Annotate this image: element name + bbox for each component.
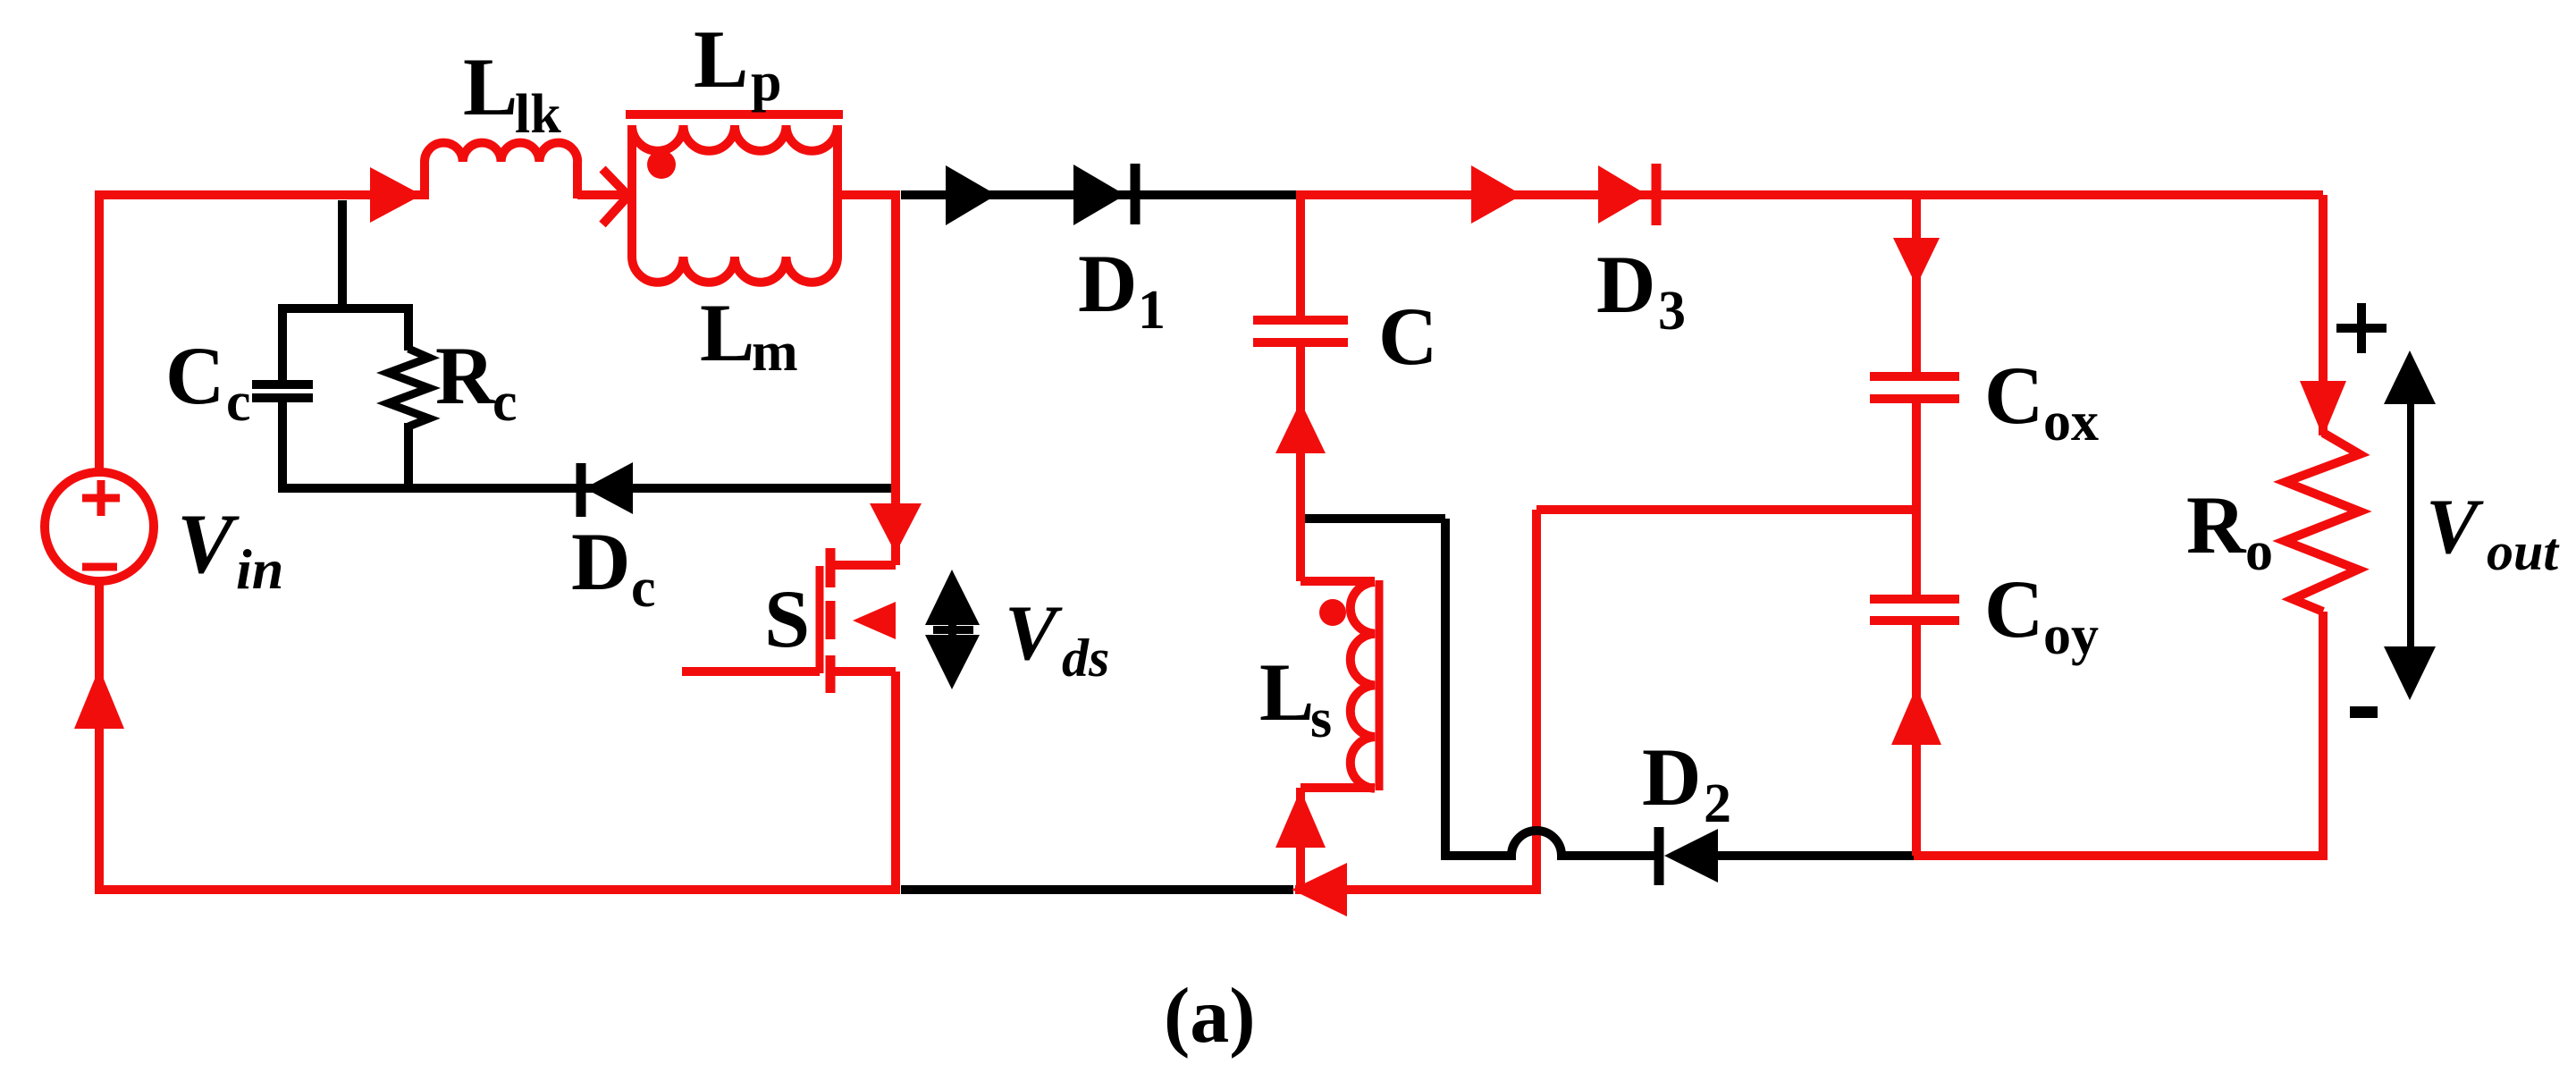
resistor Ro [2285,433,2360,612]
svg-text:ds: ds [1062,629,1109,688]
svg-text:lk: lk [515,84,561,145]
label Vin [177,496,283,601]
wire left rail bottom (red) [95,581,104,890]
current arrow down into Cox [1893,238,1940,286]
wire black with hop to D2 [1441,831,1659,856]
label Ro [2186,479,2273,582]
svg-text:1: 1 [1138,280,1166,341]
svg-text:D: D [1642,731,1701,823]
wire bottom rail right (red) [1914,851,2328,860]
svg-text:L: L [700,287,754,378]
label Rc [435,330,518,433]
svg-text:c: c [226,372,251,433]
wire top rail red (D3 segment) [1296,190,2323,195]
svg-text:ox: ox [2043,392,2099,452]
svg-text:V: V [2426,484,2484,570]
svg-text:2: 2 [1704,773,1731,834]
wire output column top (red) [1912,190,1921,372]
label D2 [1642,731,1731,834]
svg-text:V: V [1005,590,1063,677]
chevron arrow into transformer [602,169,628,224]
current arrow down above Ro [2300,381,2346,437]
wire transformer output (red) [838,190,900,199]
svg-text:C: C [165,330,224,421]
svg-text:L: L [694,13,748,105]
svg-text:o: o [2245,521,2273,582]
current arrow right on top rail [370,167,422,223]
plus sign output [2336,303,2387,353]
wire bottom rail black (MOSFET source to junction) [901,885,1293,894]
node drain junction / capacitor branch black wire from Cc loop [338,200,347,304]
capacitor Cox [1870,376,1959,399]
svg-text:c: c [631,558,656,619]
capacitor Cc [252,384,313,398]
wire riser to output mid node (red) [1536,510,1916,894]
svg-text:m: m [752,322,798,383]
svg-text:3: 3 [1658,281,1686,342]
clamp network box top (black) [282,304,408,493]
transformer left side [627,125,636,257]
svg-text:(a): (a) [1164,973,1256,1060]
polarity dot secondary [1319,599,1346,626]
svg-text:C: C [1984,350,2043,441]
label Coy [1984,563,2099,666]
resistor Rc [404,304,413,350]
diode D2 [1659,827,1718,885]
transformer core bar [626,110,843,119]
wire black D2 to output column [1718,851,1918,860]
minus sign output [2350,706,2378,718]
wire below Coy [1912,625,1921,856]
svg-text:p: p [751,52,781,113]
transformer right side [833,125,842,257]
svg-text:s: s [1310,688,1332,749]
label Vout [2426,484,2560,581]
wire black tap from C-Ls node [1305,519,1445,856]
svg-text:R: R [435,330,496,421]
svg-text:L: L [1259,646,1314,738]
transistor S (MOSFET) [682,190,922,890]
inductor Ls secondary winding [1301,580,1379,890]
diode D3 [1598,164,1656,225]
label Vds [1005,590,1109,688]
clamp bottom wire (black) [282,484,891,493]
svg-text:D: D [571,516,630,607]
label Dc [571,516,656,619]
wire between Cox and Coy [1912,399,1921,595]
voltage arrow Vout double-headed [2384,350,2436,700]
voltage arrows Vds [925,570,980,689]
label Cc [165,330,251,433]
current arrow up on left rail [74,668,124,729]
transformer winding Lm [632,257,838,283]
wire top rail black (to D1) [901,190,1305,199]
wire bottom rail red middle [1295,885,1541,894]
svg-text:D: D [1596,239,1655,330]
wire right column bottom (red) [2319,612,2328,860]
current arrow up on C branch [1275,401,1326,453]
svg-text:C: C [1378,291,1437,382]
capacitor C branch wire [1296,195,1305,316]
label Ls [1259,646,1332,749]
svg-text:C: C [1984,563,2043,655]
diode D1 [1073,164,1135,225]
svg-text:L: L [463,41,518,132]
svg-text:R: R [2186,479,2247,570]
current arrow up below Ls [1275,790,1326,848]
svg-text:V: V [177,496,240,591]
svg-text:D: D [1078,238,1137,329]
svg-text:S: S [764,573,810,664]
wire right column top (red) [2319,195,2328,435]
current arrow up below Coy [1891,687,1941,745]
capacitor C [1253,320,1348,342]
label Lp [694,13,781,113]
label Lm [700,287,798,383]
svg-text:out: out [2487,522,2560,581]
label D3 [1596,239,1686,342]
transformer winding Lp [632,125,838,151]
current arrow left at bottom junction [1292,863,1347,916]
svg-text:in: in [236,537,283,601]
wire left rail top (red) [95,195,429,472]
label Cox [1984,350,2099,452]
label Llk [463,41,561,145]
capacitor Coy [1870,599,1959,621]
current arrow right before D3 (red) [1471,165,1522,224]
inductor Llk [425,162,577,198]
wire bottom rail left (red) [95,885,900,894]
label D1 [1078,238,1166,341]
current arrow right (black) [946,165,997,225]
wire Llk to transformer (red) [577,190,626,199]
polarity dot primary [647,150,676,179]
voltage source Vin [45,472,154,581]
svg-text:c: c [492,372,518,433]
svg-text:oy: oy [2043,605,2099,666]
diode Dc [581,462,633,517]
